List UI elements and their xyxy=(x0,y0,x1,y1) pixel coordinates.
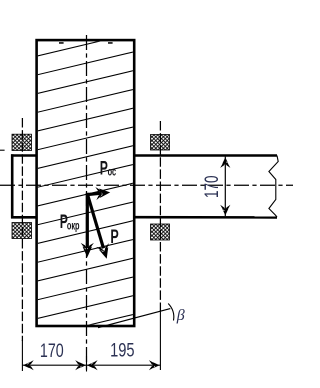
helix angle line (tooth trace) xyxy=(98,309,170,328)
gear vertical centerline xyxy=(86,35,88,371)
gear (wheel) body outline xyxy=(37,40,135,326)
horizontal shaft axis centerline xyxy=(0,184,293,186)
label P_okr xyxy=(60,213,80,233)
tick mark on gear top edge (right) xyxy=(108,42,113,44)
shaft right: bottom line xyxy=(134,216,277,219)
small dash at left margin xyxy=(0,149,5,151)
gear hatching xyxy=(36,14,136,356)
svg-text:170: 170 xyxy=(40,339,64,362)
force arrow P_oc (axial, horizontal) xyxy=(87,193,102,194)
bearing block right-upper (crosshatched) xyxy=(151,135,170,151)
label P_oc xyxy=(100,159,117,179)
shaft left journal: top line xyxy=(11,154,37,157)
force arrow P_okr (tangential, vertical down) xyxy=(86,193,89,248)
helix angle arc xyxy=(168,304,174,321)
left bearing centerline / extension line xyxy=(21,118,23,341)
shaft left journal: end (left) edge xyxy=(11,154,14,218)
tick mark on gear top edge (left) xyxy=(59,42,64,44)
svg-text:β: β xyxy=(176,307,185,324)
shaft right: top line xyxy=(134,154,277,157)
svg-text:170: 170 xyxy=(200,176,222,198)
svg-text:P: P xyxy=(100,159,108,179)
right bearing centerline / extension line xyxy=(159,121,161,311)
bearing block right-lower (crosshatched) xyxy=(151,224,170,240)
force arrow P (resultant, diagonal) xyxy=(88,195,104,249)
shaft left journal: bottom line xyxy=(11,216,37,219)
bearing block left-lower (crosshatched) xyxy=(12,223,32,239)
label P xyxy=(110,226,119,247)
svg-text:окр: окр xyxy=(67,220,80,233)
svg-text:P: P xyxy=(110,226,119,247)
bearing block left-upper (crosshatched) xyxy=(12,134,32,150)
dimension line bottom (170 / 195) xyxy=(22,364,160,366)
shaft right: break (rupture) line xyxy=(269,156,278,218)
dimension line vertical 170 (shaft diameter) xyxy=(224,157,226,217)
svg-text:ос: ос xyxy=(108,166,117,179)
svg-text:195: 195 xyxy=(110,338,134,361)
